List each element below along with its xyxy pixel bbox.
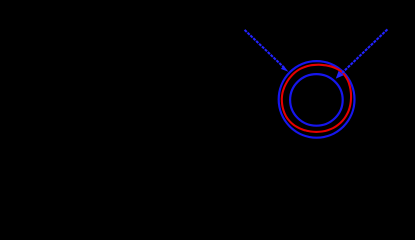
left dashed arrow line — [245, 30, 284, 68]
left arrowhead — [281, 66, 289, 72]
red contour (detected boundary) — [282, 65, 351, 132]
right dashed arrow line — [341, 29, 387, 74]
outer blue circle (ground truth outer boundary) — [279, 61, 355, 138]
inner blue circle (ground truth inner boundary) — [290, 74, 343, 126]
right arrowhead — [336, 71, 344, 79]
